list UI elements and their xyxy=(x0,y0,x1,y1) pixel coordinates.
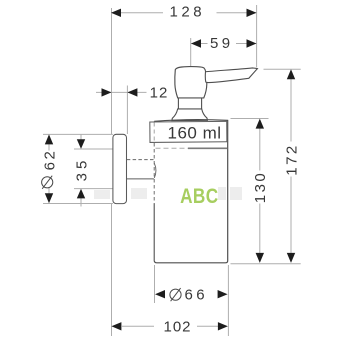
bottle outline xyxy=(154,120,228,263)
dimension 130 line xyxy=(259,127,261,255)
holder stem bottom edge xyxy=(127,178,154,180)
extension line plate front x=127 xyxy=(126,86,128,135)
dimension d62 arrows xyxy=(45,134,53,203)
extension line bottle top right xyxy=(231,118,269,120)
level line solid right xyxy=(188,147,227,149)
faint watermark blocks xyxy=(94,187,242,200)
extension line holder bottom left xyxy=(74,188,113,190)
extension line spout tip vertical xyxy=(256,5,258,67)
extension line bottle left bottom xyxy=(154,265,156,303)
wall plate xyxy=(113,134,127,203)
svg-text:ABC: ABC xyxy=(180,184,218,208)
svg-text:102: 102 xyxy=(163,319,191,336)
extension line pump centerline xyxy=(190,38,192,68)
pump cap xyxy=(175,67,207,98)
extension line plate top left xyxy=(43,133,113,135)
bottle left edge solid bottom xyxy=(153,204,155,261)
extension line wall vertical bottom xyxy=(111,204,113,336)
holder ring arc xyxy=(154,163,156,178)
svg-text:35: 35 xyxy=(73,157,90,182)
svg-text:62: 62 xyxy=(41,149,58,171)
dimension d66 text xyxy=(170,287,208,304)
dimension d66 arrows xyxy=(155,290,228,298)
dimension 128 line xyxy=(111,12,257,14)
extension line plate bottom left xyxy=(43,203,113,205)
extension line spout tip horizontal xyxy=(264,68,301,70)
dimension d62 line xyxy=(48,143,50,195)
dimension 12 arrows xyxy=(102,88,138,96)
dimension 12 line xyxy=(96,91,147,93)
level line dashed left xyxy=(156,147,189,149)
dimension 35 arrows xyxy=(77,139,85,198)
extension line wall vertical top xyxy=(111,8,113,134)
svg-text:130: 130 xyxy=(252,171,269,204)
dimension 130 text xyxy=(252,171,269,204)
dimension 35 line xyxy=(80,135,82,207)
dimension 128 arrows xyxy=(111,9,257,17)
pump spout xyxy=(205,68,257,83)
svg-text:160 ml: 160 ml xyxy=(167,124,221,143)
svg-text:59: 59 xyxy=(210,35,234,52)
holder stem hidden top edge xyxy=(127,159,154,161)
dimension 35 text xyxy=(73,157,90,182)
dimension d62 text xyxy=(41,149,58,189)
bottle left edge hidden dashed xyxy=(153,131,155,204)
dimension 59 line xyxy=(191,43,257,45)
extension line bottle right bottom xyxy=(227,265,229,336)
watermark ABC xyxy=(180,184,218,208)
svg-text:12: 12 xyxy=(150,85,169,102)
dimension 172 arrows xyxy=(287,69,295,263)
label box xyxy=(150,121,227,142)
dimension 59 arrows xyxy=(191,39,257,47)
pump collar xyxy=(172,109,208,121)
bottle left edge solid top xyxy=(153,121,155,131)
svg-text:128: 128 xyxy=(170,3,206,20)
bottle edge hint through label xyxy=(153,123,155,142)
dimension 102 line xyxy=(122,325,218,327)
dimension 172 text xyxy=(283,143,300,176)
svg-text:172: 172 xyxy=(283,143,300,176)
svg-text:66: 66 xyxy=(184,287,208,304)
dimension 130 arrows xyxy=(256,119,264,263)
extension line bottle bottom right xyxy=(231,263,301,265)
extension line holder top left xyxy=(74,148,113,150)
pump neck xyxy=(178,98,201,109)
dimension 102 arrows xyxy=(111,322,227,330)
dimension 172 line xyxy=(290,78,292,255)
